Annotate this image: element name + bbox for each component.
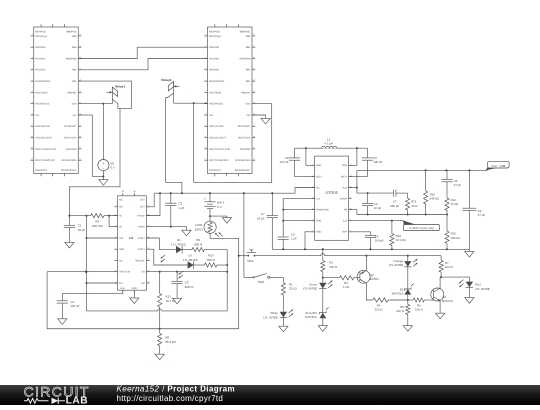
svg-text:100 nF: 100 nF — [280, 160, 289, 164]
svg-text:RC1/T1OSI/CCP2: RC1/T1OSI/CCP2 — [209, 159, 229, 162]
svg-text:RB0/INT: RB0/INT — [67, 91, 77, 94]
svg-text:SW1: SW1 — [316, 164, 322, 167]
svg-text:8: 8 — [205, 101, 206, 104]
svg-text:845 kΩ: 845 kΩ — [430, 197, 440, 201]
svg-text:RC4/SDI/SDA: RC4/SDI/SDA — [62, 159, 77, 162]
svg-text:16: 16 — [253, 158, 255, 161]
svg-text:25: 25 — [253, 56, 255, 59]
svg-text:11: 11 — [205, 135, 207, 138]
svg-text:LTL-307EE: LTL-307EE — [475, 287, 489, 291]
svg-text:4.7 µH: 4.7 µH — [324, 142, 333, 146]
svg-text:RB4: RB4 — [246, 46, 251, 49]
svg-text:Iout: Iout — [343, 220, 347, 223]
svg-text:BAT1: BAT1 — [217, 201, 225, 205]
svg-text:100 mΩ: 100 mΩ — [92, 224, 103, 228]
svg-text:C7: C7 — [261, 212, 265, 216]
svg-text:3: 3 — [32, 45, 33, 48]
svg-text:100 Ω: 100 Ω — [445, 265, 454, 269]
svg-text:PWM/SYNC: PWM/SYNC — [316, 209, 329, 212]
svg-text:10: 10 — [31, 124, 33, 127]
svg-text:SW2: SW2 — [342, 164, 348, 167]
svg-text:RA1/AN1: RA1/AN1 — [209, 57, 220, 60]
svg-text:RB6/PGC: RB6/PGC — [240, 30, 251, 33]
svg-text:19: 19 — [79, 124, 81, 127]
svg-text:100 Ω: 100 Ω — [195, 227, 204, 231]
svg-text:RA3/AN3/Vref: RA3/AN3/Vref — [35, 80, 50, 83]
svg-text:LTC3112: LTC3112 — [325, 191, 337, 195]
svg-text:Vss: Vss — [35, 114, 40, 117]
svg-text:Vcc: Vcc — [316, 198, 321, 201]
svg-text:R8: R8 — [95, 220, 99, 224]
svg-text:RB4: RB4 — [72, 46, 77, 49]
svg-text:1N4731A: 1N4731A — [391, 292, 403, 296]
svg-text:Relay1: Relay1 — [115, 85, 125, 89]
svg-text:RB7/PGD: RB7/PGD — [209, 30, 220, 33]
svg-text:R10: R10 — [208, 253, 214, 257]
svg-text:11: 11 — [31, 135, 33, 138]
svg-text:RA5/AN4/SS: RA5/AN4/SS — [35, 103, 49, 106]
svg-text:8: 8 — [32, 101, 33, 104]
svg-text:220 nF: 220 nF — [185, 285, 195, 289]
svg-text:9: 9 — [32, 112, 33, 115]
svg-text:Vout: Vout — [120, 287, 125, 290]
svg-text:To ADC 1V per amp: To ADC 1V per amp — [409, 226, 434, 230]
svg-text:22 pF: 22 pF — [374, 206, 382, 210]
svg-text:RC0/T1OSO/T1CKI: RC0/T1OSO/T1CKI — [35, 148, 56, 151]
svg-text:OSC2/CLKOUT: OSC2/CLKOUT — [209, 137, 226, 140]
svg-text:RB5: RB5 — [72, 35, 77, 38]
svg-text:14: 14 — [148, 258, 150, 261]
svg-text:27: 27 — [253, 33, 255, 36]
svg-text:2: 2 — [32, 33, 33, 36]
svg-text:RA2/AN2: RA2/AN2 — [35, 69, 46, 72]
svg-text:RB7/PGD: RB7/PGD — [35, 30, 46, 33]
svg-text:NC: NC — [119, 206, 123, 209]
svg-text:22: 22 — [253, 90, 255, 93]
svg-text:RB3/PGM: RB3/PGM — [240, 57, 251, 60]
svg-text:680 pF: 680 pF — [390, 204, 399, 208]
svg-text:MCLR/Vpp: MCLR/Vpp — [209, 35, 221, 38]
svg-text:RC3/SCK/SCL: RC3/SCK/SCL — [235, 169, 251, 172]
svg-text:GND: GND — [132, 287, 138, 290]
svg-text:220 Ω: 220 Ω — [396, 309, 405, 313]
svg-text:RC0/T1OSO/T1CKI: RC0/T1OSO/T1CKI — [209, 148, 230, 151]
svg-text:TMR SEL: TMR SEL — [135, 259, 146, 262]
svg-text:C2: C2 — [178, 201, 182, 205]
svg-text:1 µF: 1 µF — [291, 237, 297, 241]
svg-text:R11: R11 — [166, 294, 172, 298]
svg-text:23: 23 — [253, 78, 255, 81]
svg-text:RB6/PGC: RB6/PGC — [66, 30, 77, 33]
svg-text:RC2/CCP1: RC2/CCP1 — [209, 169, 221, 172]
svg-text:BC556: BC556 — [370, 277, 379, 281]
svg-text:RC3/SCK/SCL: RC3/SCK/SCL — [61, 169, 77, 172]
svg-text:RA0/AN0: RA0/AN0 — [209, 46, 220, 49]
svg-text:10 µF: 10 µF — [257, 217, 265, 221]
svg-text:LTL-307EE: LTL-307EE — [303, 287, 317, 291]
svg-text:VDD: VDD — [245, 103, 250, 106]
svg-text:STAT1: STAT1 — [138, 248, 146, 251]
svg-text:7: 7 — [32, 90, 33, 93]
svg-text:NC: NC — [141, 282, 145, 285]
svg-text:http://circuitlab.com/cpyr7td: http://circuitlab.com/cpyr7td — [117, 394, 224, 403]
svg-text:6: 6 — [205, 78, 206, 81]
svg-text:RC5/SDO: RC5/SDO — [240, 148, 251, 151]
svg-text:RB5: RB5 — [246, 35, 251, 38]
svg-text:AGND: AGND — [138, 226, 145, 229]
svg-text:RB2: RB2 — [246, 69, 251, 72]
svg-text:D1: D1 — [177, 238, 181, 242]
svg-text:26: 26 — [79, 45, 81, 48]
svg-text:U3: U3 — [129, 236, 133, 240]
svg-text:RA2/AN2: RA2/AN2 — [209, 69, 220, 72]
svg-text:Vsense: Vsense — [137, 214, 146, 217]
svg-text:CN: CN — [141, 271, 145, 274]
svg-text:RA1/AN1: RA1/AN1 — [35, 57, 46, 60]
svg-text:220 Ω: 220 Ω — [289, 287, 298, 291]
svg-text:13: 13 — [205, 158, 207, 161]
svg-text:7: 7 — [116, 258, 117, 261]
svg-text:220 Ω: 220 Ω — [375, 308, 384, 312]
svg-text:Vss: Vss — [209, 114, 214, 117]
svg-text:RB1: RB1 — [72, 80, 77, 83]
svg-text:RA4/T0CKI: RA4/T0CKI — [35, 91, 47, 94]
svg-text:158 kΩ: 158 kΩ — [451, 236, 461, 240]
svg-text:6: 6 — [116, 247, 117, 250]
svg-text:OSC1/CLKIN: OSC1/CLKIN — [209, 125, 223, 128]
svg-text:SW2: SW2 — [257, 280, 264, 284]
svg-text:RB3/PGM: RB3/PGM — [66, 57, 77, 60]
svg-text:100 nF: 100 nF — [373, 160, 382, 164]
svg-text:18: 18 — [79, 135, 81, 138]
svg-text:Vin: Vin — [316, 186, 320, 189]
svg-text:RC5/SDO: RC5/SDO — [66, 148, 77, 151]
svg-text:42.2 kΩ: 42.2 kΩ — [396, 238, 407, 242]
svg-text:10 µF: 10 µF — [78, 228, 86, 232]
svg-text:11: 11 — [350, 196, 352, 199]
svg-text:R9: R9 — [196, 238, 200, 242]
svg-text:RA5/AN4/SS: RA5/AN4/SS — [209, 103, 223, 106]
svg-text:RB2: RB2 — [72, 69, 77, 72]
svg-text:FB: FB — [344, 209, 347, 212]
svg-text:RC7/RX/DT: RC7/RX/DT — [64, 125, 77, 128]
svg-text:OSC1/CLKIN: OSC1/CLKIN — [35, 125, 49, 128]
svg-text:18: 18 — [253, 135, 255, 138]
svg-text:LDR1: LDR1 — [195, 223, 203, 227]
svg-text:OVP: OVP — [342, 231, 347, 234]
svg-text:−: − — [102, 167, 105, 171]
svg-text:1 µF: 1 µF — [178, 206, 184, 210]
svg-text:Vss: Vss — [246, 114, 251, 117]
svg-text:OUT: OUT — [140, 199, 146, 202]
svg-text:RC4/SDI/SDA: RC4/SDI/SDA — [235, 159, 250, 162]
svg-text:26: 26 — [253, 45, 255, 48]
svg-text:COMP: COMP — [340, 198, 348, 201]
svg-text:RA4/T0CKI: RA4/T0CKI — [209, 91, 221, 94]
svg-text:RA0/AN0: RA0/AN0 — [35, 46, 46, 49]
svg-text:4: 4 — [32, 56, 33, 59]
svg-text:6 V: 6 V — [110, 166, 115, 170]
svg-text:1 kΩ: 1 kΩ — [343, 285, 350, 289]
svg-text:RC6/TX/CK: RC6/TX/CK — [238, 137, 251, 140]
svg-text:R8: R8 — [165, 336, 169, 340]
svg-text:220 Ω: 220 Ω — [329, 265, 338, 269]
svg-text:RB0/INT: RB0/INT — [241, 91, 251, 94]
svg-text:Relay2: Relay2 — [161, 78, 171, 82]
svg-text:LTL-307EE: LTL-307EE — [183, 258, 198, 262]
svg-text:BC547A: BC547A — [442, 299, 453, 303]
svg-text:EN: EN — [119, 282, 123, 285]
svg-text:2: 2 — [116, 204, 117, 207]
svg-text:IN: IN — [119, 214, 122, 217]
svg-text:100 nF: 100 nF — [70, 304, 79, 308]
svg-text:BST1: BST1 — [316, 175, 323, 178]
svg-text:2: 2 — [205, 33, 206, 36]
svg-text:27: 27 — [79, 33, 81, 36]
svg-text:6: 6 — [32, 78, 33, 81]
svg-text:C3: C3 — [185, 280, 189, 284]
svg-text:OSC2/CLKOUT: OSC2/CLKOUT — [35, 137, 52, 140]
svg-text:33 Ω: 33 Ω — [411, 204, 418, 208]
svg-text:VDD: VDD — [72, 103, 77, 106]
svg-text:19: 19 — [253, 124, 255, 127]
svg-text:SW1: SW1 — [247, 259, 254, 263]
svg-text:RC7/RX/DT: RC7/RX/DT — [238, 125, 251, 128]
svg-text:GND: GND — [119, 248, 125, 251]
svg-text:9: 9 — [205, 112, 206, 115]
svg-text:22: 22 — [79, 90, 81, 93]
svg-text:APD/TLIM: APD/TLIM — [119, 271, 130, 274]
svg-text:10: 10 — [205, 124, 207, 127]
svg-text:17: 17 — [253, 146, 255, 149]
svg-text:IN: IN — [133, 190, 136, 193]
svg-text:LTL-307EE: LTL-307EE — [263, 315, 277, 319]
svg-text:RC2/CCP1: RC2/CCP1 — [35, 169, 47, 172]
svg-text:RB1: RB1 — [246, 80, 251, 83]
svg-text:STAT2: STAT2 — [138, 237, 146, 240]
svg-text:12: 12 — [148, 280, 150, 283]
svg-text:NC: NC — [119, 199, 123, 202]
svg-text:RA3/AN3/Vref: RA3/AN3/Vref — [209, 80, 224, 83]
svg-text:LTL-307EE: LTL-307EE — [389, 263, 403, 267]
svg-text:+: + — [102, 161, 105, 165]
svg-text:16: 16 — [79, 158, 81, 161]
svg-text:LAB: LAB — [66, 396, 89, 405]
svg-text:LTL-307EE: LTL-307EE — [171, 242, 186, 246]
svg-text:Vout: Vout — [342, 186, 347, 189]
svg-text:NC: NC — [119, 259, 123, 262]
svg-text:SEL: SEL — [119, 237, 124, 240]
svg-text:10 kΩ: 10 kΩ — [451, 202, 459, 206]
svg-text:+: + — [204, 197, 206, 201]
svg-text:24: 24 — [253, 67, 255, 70]
svg-text:500 Ω: 500 Ω — [207, 258, 216, 262]
svg-text:100 pF: 100 pF — [375, 239, 384, 243]
svg-text:1N4736A: 1N4736A — [305, 315, 317, 319]
svg-text:12: 12 — [205, 146, 207, 149]
svg-text:86.3 kΩ: 86.3 kΩ — [165, 340, 176, 344]
svg-text:RC1/T1OSI/CCP2: RC1/T1OSI/CCP2 — [35, 159, 55, 162]
svg-text:5: 5 — [205, 67, 206, 70]
svg-text:500 Ω: 500 Ω — [194, 242, 203, 246]
svg-text:47 µF: 47 µF — [454, 183, 462, 187]
svg-text:V0: V0 — [110, 161, 114, 165]
svg-text:Vss: Vss — [73, 114, 78, 117]
svg-text:BST2: BST2 — [341, 175, 348, 178]
svg-text:7: 7 — [205, 90, 206, 93]
svg-text:GND: GND — [316, 231, 322, 234]
svg-text:IN: IN — [119, 226, 122, 229]
svg-text:100 Ω: 100 Ω — [415, 308, 424, 312]
svg-text:RUN: RUN — [316, 220, 321, 223]
svg-text:IN: IN — [122, 190, 125, 193]
svg-text:C1: C1 — [78, 223, 82, 227]
svg-text:12: 12 — [31, 146, 33, 149]
svg-text:MCLR/Vpp: MCLR/Vpp — [35, 35, 47, 38]
svg-text:Vout - USB: Vout - USB — [491, 164, 505, 168]
svg-text:47 µF: 47 µF — [478, 213, 486, 217]
svg-text:OUT: OUT — [140, 206, 146, 209]
svg-text:RC6/TX/CK: RC6/TX/CK — [64, 137, 77, 140]
svg-text:6 V: 6 V — [217, 205, 222, 209]
svg-text:13: 13 — [31, 158, 33, 161]
svg-text:5: 5 — [32, 67, 33, 70]
svg-text:D7: D7 — [188, 253, 192, 257]
svg-text:Keerna152 / Project Diagram: Keerna152 / Project Diagram — [117, 385, 236, 393]
svg-text:17: 17 — [79, 146, 81, 149]
